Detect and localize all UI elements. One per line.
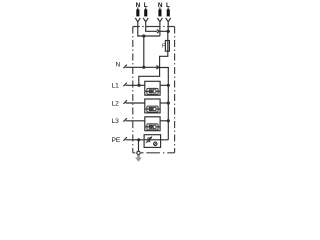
terminal pin 2 (L) bbox=[144, 9, 147, 16]
earth arrow bbox=[135, 155, 142, 162]
node N top junction bbox=[142, 34, 145, 37]
wire N top link to pin3 bbox=[144, 35, 160, 37]
node L1 tap bbox=[137, 84, 140, 87]
protection module L1 box bbox=[145, 81, 160, 95]
varistor element symbol L2 bbox=[145, 106, 160, 112]
wire L junction to fuse bbox=[167, 31, 169, 40]
svg-text:L2: L2 bbox=[112, 100, 120, 107]
wire L1 row bbox=[126, 84, 145, 86]
terminal pin 3 (N) bbox=[158, 9, 161, 16]
wire fork to L junction bbox=[159, 30, 168, 32]
wire L1 box to bus bbox=[160, 84, 168, 86]
plug-in socket fork under pin 4 bbox=[166, 18, 171, 25]
pin top stubs bbox=[138, 7, 168, 9]
node N row junction bbox=[142, 66, 145, 69]
spark gap symbol with trigger arrow bbox=[144, 136, 161, 145]
plug fork on N row bbox=[156, 66, 159, 70]
enclosure border top (dash-dot) bbox=[133, 26, 175, 28]
wire L3 box to bus bbox=[160, 120, 168, 122]
wire L2 row bbox=[126, 102, 145, 104]
protection module L3 box bbox=[145, 117, 160, 131]
plug-in socket fork under pin 1 bbox=[135, 18, 140, 25]
node L top junction bbox=[167, 30, 170, 33]
wire pin1 N down and right bbox=[138, 25, 144, 36]
wire N drop to N row bbox=[143, 36, 145, 67]
N/PE bus vertical bbox=[167, 85, 169, 140]
node L3 bus bbox=[167, 119, 170, 122]
svg-text:L1: L1 bbox=[112, 83, 120, 90]
fuse F bbox=[165, 41, 169, 52]
enclosure border left (dash-dot) bbox=[132, 27, 134, 153]
plug-in socket fork under pin 3 bbox=[157, 18, 162, 25]
terminal pin 1 (N) bbox=[136, 9, 139, 16]
node L1 bus bbox=[167, 84, 170, 87]
terminal pin 4 (L) bbox=[167, 9, 170, 16]
plug fork on L link bbox=[157, 29, 159, 33]
terminal slash N bbox=[124, 65, 127, 69]
wire pin3 N down bbox=[159, 25, 161, 36]
earthing terminal circle bbox=[137, 151, 140, 154]
node L2 bus bbox=[167, 101, 170, 104]
plug-in socket fork under pin 2 bbox=[143, 18, 148, 25]
wire L3 row bbox=[126, 120, 145, 122]
wire PE box to bus bbox=[161, 139, 169, 141]
svg-text:L3: L3 bbox=[112, 118, 120, 125]
svg-text:N: N bbox=[116, 62, 121, 69]
wire L2 box to bus bbox=[160, 102, 168, 104]
terminal slash L3 bbox=[124, 118, 127, 122]
protection module L2 box bbox=[145, 99, 160, 113]
terminal slash L1 bbox=[124, 83, 127, 87]
spark gap module PE box bbox=[144, 135, 161, 148]
wire N row bbox=[126, 66, 158, 68]
node PE junction bbox=[137, 138, 140, 141]
svg-text:PE: PE bbox=[112, 137, 121, 144]
wire pin4 L down bbox=[167, 25, 169, 31]
wire N plug to bus bbox=[159, 68, 168, 86]
terminal slash PE bbox=[124, 137, 127, 141]
enclosure border bottom (dash-dot) bbox=[133, 152, 175, 154]
wire pin2 L down and right bbox=[146, 25, 158, 31]
varistor element symbol L3 bbox=[145, 124, 160, 130]
wire fuse down staircase to L1 tap bbox=[139, 51, 168, 85]
terminal slash L2 bbox=[124, 100, 127, 104]
wire PE row bbox=[126, 139, 145, 141]
varistor element symbol L1 bbox=[145, 88, 160, 94]
enclosure border right (dash-dot) bbox=[174, 27, 176, 153]
wire earth drop bbox=[138, 140, 140, 151]
